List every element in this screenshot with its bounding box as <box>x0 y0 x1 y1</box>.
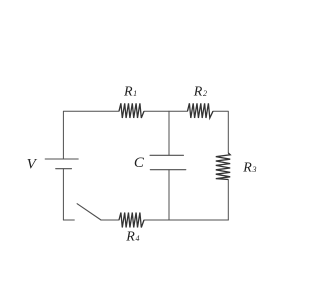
resistor R2 <box>188 103 214 118</box>
svg-text:V: V <box>27 157 38 173</box>
wire capacitor branch lower <box>168 170 170 220</box>
capacitor C <box>150 155 186 169</box>
wire bottom-right segment <box>144 219 228 221</box>
wire top-middle segment <box>144 110 188 112</box>
svg-text:R1: R1 <box>123 85 137 100</box>
svg-text:C: C <box>134 155 145 171</box>
resistor R4 <box>119 213 144 228</box>
battery V <box>45 159 78 169</box>
wire bottom stub to switch contact <box>63 219 74 221</box>
wire switch to R4 <box>101 219 119 221</box>
wire right vertical lower <box>227 180 229 221</box>
wire top-right segment <box>213 111 228 153</box>
wire left vertical lower <box>62 169 64 220</box>
svg-text:R3: R3 <box>242 161 256 176</box>
svg-text:R2: R2 <box>193 85 207 100</box>
resistor R1 <box>119 103 144 118</box>
wire top-left segment <box>63 111 119 159</box>
svg-text:R4: R4 <box>125 229 139 244</box>
switch (open blade) <box>77 204 101 220</box>
wire capacitor branch upper <box>168 111 170 155</box>
resistor R3 (vertical) <box>216 153 230 180</box>
